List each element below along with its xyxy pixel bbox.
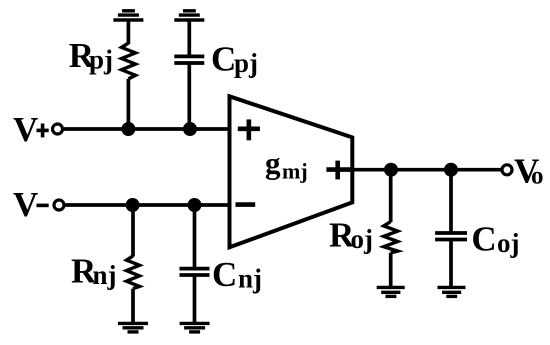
op-amp U1 non-inverting input marker + xyxy=(238,119,260,140)
svg-text:pj: pj xyxy=(89,45,113,75)
resistor Rpj xyxy=(122,43,136,79)
label Coj xyxy=(471,220,519,259)
svg-text:nj: nj xyxy=(238,264,262,294)
resistor Roj xyxy=(384,222,398,253)
label V- xyxy=(13,185,49,224)
terminal circle V+ xyxy=(53,124,63,134)
ground GND6 (below Coj) xyxy=(438,287,466,296)
terminal circle Vo xyxy=(502,165,512,175)
svg-text:V: V xyxy=(13,110,38,149)
wire V- rail to Rnj top xyxy=(131,205,135,257)
junction node on V- rail at Cnj xyxy=(188,198,202,212)
label gmj xyxy=(265,146,308,184)
svg-text:C: C xyxy=(212,255,237,294)
resistor Rnj xyxy=(127,256,140,289)
ground GND2 (top, above Cpj, inverted) xyxy=(174,11,204,20)
wire Cnj bottom plate to GND4 xyxy=(193,275,197,323)
svg-text:pj: pj xyxy=(234,48,258,78)
wire Roj bottom to GND5 xyxy=(389,253,393,288)
label Cnj xyxy=(212,255,262,294)
svg-text:C: C xyxy=(211,40,236,79)
wire GND1 to Rpj top xyxy=(127,20,131,44)
label Rnj xyxy=(71,252,117,291)
label Vo xyxy=(514,152,544,191)
svg-text:oj: oj xyxy=(497,228,520,258)
svg-text:nj: nj xyxy=(93,260,117,290)
label Cpj xyxy=(211,40,258,79)
ground GND5 (below Roj) xyxy=(377,287,405,296)
wire V- rail to Cnj top plate xyxy=(193,205,197,269)
wire Rnj bottom to GND3 xyxy=(131,289,135,324)
terminal circle V- xyxy=(54,200,64,210)
op-amp U1 inverting input marker - xyxy=(236,202,256,207)
wire Cpj bottom plate to V+ rail xyxy=(187,63,191,129)
op-amp U1 output polarity marker + xyxy=(326,161,352,180)
wire Coj bottom plate to GND6 xyxy=(449,240,453,288)
wire output rail xyxy=(352,168,502,172)
wire V+ rail xyxy=(64,127,230,131)
label Rpj xyxy=(69,36,113,75)
svg-text:V: V xyxy=(13,185,38,224)
wire V- rail xyxy=(66,203,230,207)
wire GND2 to Cpj top plate xyxy=(187,20,191,56)
wire Rpj bottom to V+ rail xyxy=(127,79,131,129)
label V+ xyxy=(13,110,49,149)
capacitor Cnj xyxy=(180,269,210,275)
svg-text:g: g xyxy=(265,146,281,181)
wire output rail to Roj top xyxy=(389,170,393,222)
svg-text:C: C xyxy=(471,220,496,259)
label Roj xyxy=(329,216,373,255)
ground GND3 (below Rnj) xyxy=(118,323,148,332)
junction node on output rail at Roj xyxy=(384,163,398,177)
ground GND1 (top, above Rpj, inverted) xyxy=(113,11,143,20)
junction node on V- rail at Rnj xyxy=(126,198,140,212)
junction node on output rail at Coj xyxy=(444,163,458,177)
wire output rail to Coj top plate xyxy=(449,170,453,233)
junction node on V+ rail at Cpj xyxy=(183,122,197,136)
svg-text:mj: mj xyxy=(282,158,308,183)
ground GND4 (below Cnj) xyxy=(180,323,210,332)
capacitor Coj xyxy=(435,233,467,240)
op-amp U1 (transconductance amplifier body) xyxy=(230,96,353,247)
svg-text:o: o xyxy=(531,163,544,190)
junction node on V+ rail at Rpj xyxy=(121,122,135,136)
svg-text:oj: oj xyxy=(351,224,374,254)
capacitor Cpj xyxy=(174,56,204,63)
